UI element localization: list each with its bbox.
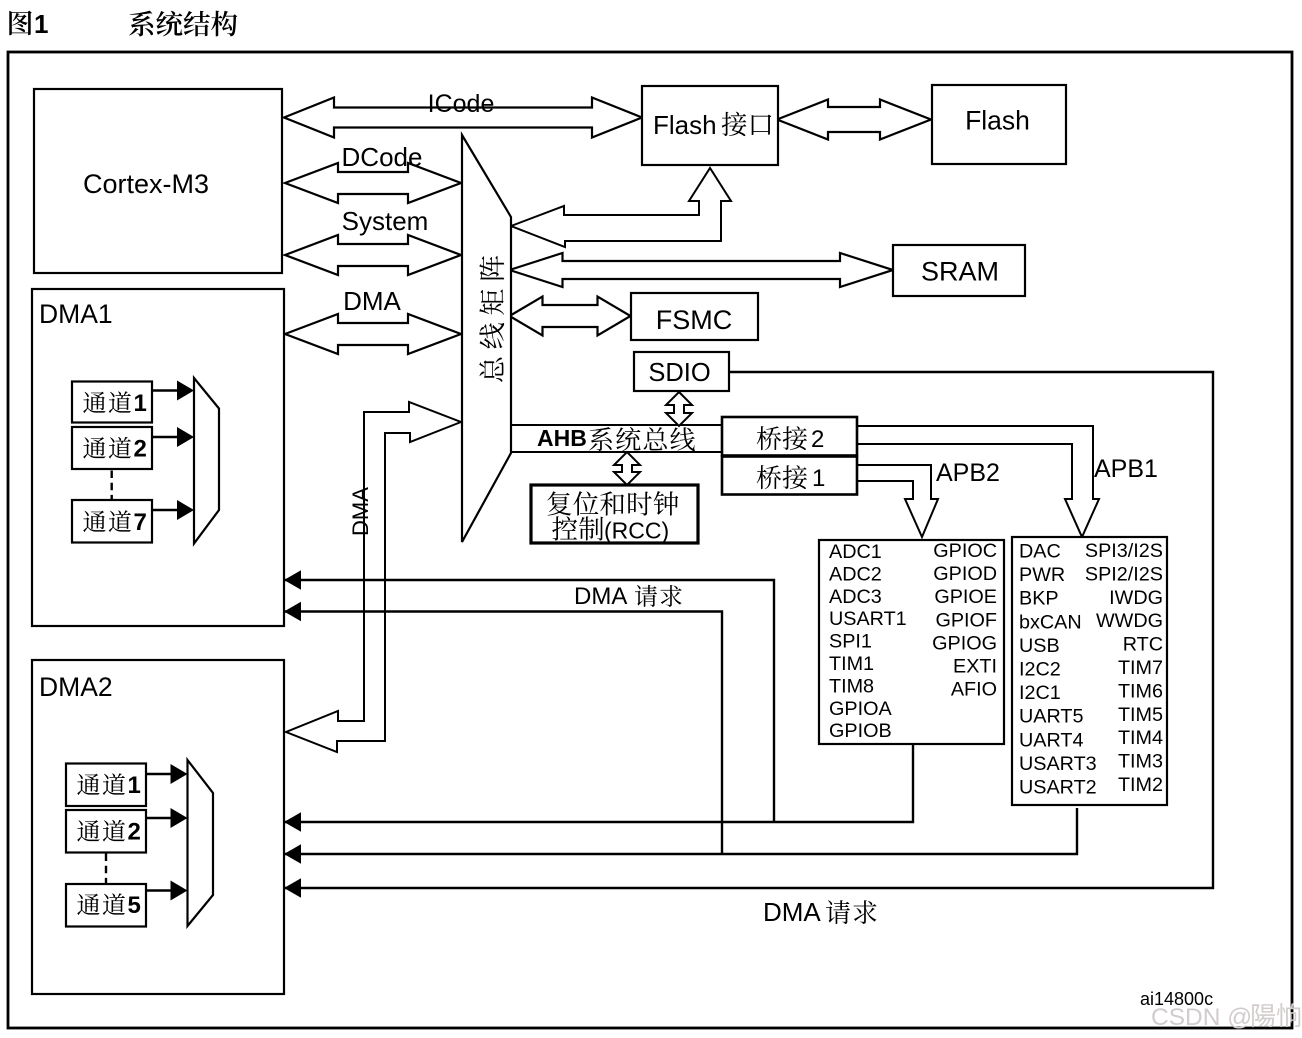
- svg-text:TIM4: TIM4: [1118, 727, 1163, 749]
- box DMA1 channel 通道2: [72, 427, 152, 469]
- svg-text:I2C1: I2C1: [1019, 682, 1061, 704]
- arrow System bus (Cortex to bus matrix): [285, 235, 461, 275]
- label APB1: [1094, 455, 1158, 483]
- label AHB系统总线: [537, 425, 695, 451]
- watermark CSDN: [1151, 1003, 1300, 1031]
- dashed link DMA2 channels: [105, 854, 107, 884]
- bent arrow bus matrix to DMA2: [286, 402, 461, 752]
- box peripherals APB2 group: [819, 540, 1004, 744]
- svg-text:DCode: DCode: [342, 142, 423, 172]
- wire DMA request net2 (periph box2 to DMA1/DMA2): [284, 602, 1077, 864]
- svg-text:DMA: DMA: [348, 487, 373, 536]
- arrow SDIO to AHB: [666, 392, 692, 426]
- box Cortex-M3: [34, 89, 282, 273]
- box DMA2 channel 通道5: [66, 884, 146, 927]
- svg-text:APB2: APB2: [936, 459, 1000, 487]
- svg-text:TIM6: TIM6: [1118, 680, 1163, 702]
- label DMA (DMA1 bus): [343, 286, 401, 316]
- svg-text:2: 2: [128, 819, 141, 846]
- svg-text:2: 2: [811, 426, 824, 453]
- box bridge 桥接2: [722, 417, 857, 456]
- svg-text:2: 2: [134, 436, 147, 463]
- box DMA2 channel 通道1: [66, 764, 146, 807]
- svg-text:ICode: ICode: [428, 90, 495, 118]
- svg-text:SPI1: SPI1: [829, 631, 872, 653]
- title text 系统结构: [129, 11, 237, 37]
- svg-text:DMA: DMA: [343, 286, 401, 316]
- svg-text:1: 1: [134, 390, 147, 417]
- svg-text:UART5: UART5: [1019, 706, 1084, 728]
- mux trapezoid DMA1: [194, 378, 219, 544]
- svg-text:ADC1: ADC1: [829, 541, 882, 563]
- svg-text:1: 1: [128, 772, 141, 799]
- arrow APB1 (bridge2 to periph box2): [857, 426, 1099, 537]
- svg-text:TIM8: TIM8: [829, 675, 874, 697]
- svg-text:SDIO: SDIO: [648, 359, 710, 387]
- wire AHB system bus upper: [511, 424, 722, 426]
- svg-text:ADC3: ADC3: [829, 586, 882, 608]
- svg-text:Flash: Flash: [653, 110, 717, 140]
- box Flash interface Flash接口: [642, 86, 778, 165]
- svg-text:USART3: USART3: [1019, 753, 1097, 775]
- box bridge 桥接1: [722, 457, 857, 495]
- svg-text:DMA1: DMA1: [39, 299, 113, 329]
- wire DMA request net3 (SDIO to DMA2): [284, 372, 1213, 898]
- svg-text:USB: USB: [1019, 635, 1060, 657]
- svg-text:GPIOD: GPIOD: [933, 563, 997, 585]
- label APB2: [936, 459, 1000, 487]
- label DCode: [342, 142, 423, 172]
- box SRAM: [893, 245, 1025, 296]
- arrow Flash interface to Flash: [777, 100, 931, 140]
- svg-text:RTC: RTC: [1123, 634, 1163, 656]
- bent arrow bus matrix to Flash interface: [511, 168, 731, 247]
- svg-text:TIM2: TIM2: [1118, 774, 1163, 796]
- svg-text:TIM1: TIM1: [829, 653, 874, 675]
- svg-text:USART1: USART1: [829, 608, 907, 630]
- label ICode: [428, 90, 495, 118]
- svg-text:GPIOG: GPIOG: [932, 632, 997, 654]
- wire DMA1 ch7 to mux: [152, 500, 194, 520]
- wire DMA1 ch1 to mux: [152, 381, 194, 401]
- svg-text:AHB: AHB: [537, 425, 587, 451]
- svg-text:GPIOE: GPIOE: [934, 586, 997, 608]
- svg-text:AFIO: AFIO: [951, 679, 997, 701]
- box FSMC: [631, 293, 758, 340]
- wire AHB system bus lower: [511, 451, 722, 453]
- svg-text:5: 5: [128, 892, 141, 919]
- label ai14800c: [1140, 989, 1213, 1009]
- arrow bus matrix to SRAM: [510, 253, 894, 287]
- arrow AHB to RCC: [614, 452, 640, 485]
- box RCC 复位和时钟控制: [531, 485, 698, 544]
- label DMA 请求 upper: [574, 583, 682, 610]
- svg-text:1: 1: [812, 465, 825, 492]
- svg-text:DAC: DAC: [1019, 541, 1061, 563]
- svg-text:CSDN @: CSDN @: [1151, 1004, 1252, 1031]
- wire DMA2 ch5 to mux: [146, 881, 188, 901]
- arrow DCode bus (Cortex to bus matrix): [285, 163, 461, 203]
- svg-text:GPIOC: GPIOC: [933, 540, 997, 562]
- svg-text:SPI3/I2S: SPI3/I2S: [1085, 540, 1163, 562]
- box peripherals APB1 group: [1012, 537, 1167, 805]
- dashed link DMA1 channels: [110, 471, 112, 500]
- svg-text:I2C2: I2C2: [1019, 659, 1061, 681]
- wire DMA2 ch2 to mux: [146, 808, 188, 828]
- arrow ICode bus (Cortex to Flash interface): [284, 98, 642, 138]
- svg-text:PWR: PWR: [1019, 564, 1065, 586]
- svg-text:IWDG: IWDG: [1109, 587, 1163, 609]
- svg-text:7: 7: [134, 509, 147, 536]
- box Flash: [932, 85, 1066, 164]
- svg-text:EXTI: EXTI: [953, 656, 997, 678]
- bus matrix polygon 总线矩阵: [462, 135, 511, 542]
- svg-text:TIM3: TIM3: [1118, 751, 1163, 773]
- box DMA2: [32, 660, 284, 994]
- svg-text:SRAM: SRAM: [921, 257, 999, 287]
- svg-text:DMA: DMA: [574, 583, 627, 610]
- title figure label 图1: [9, 9, 48, 39]
- svg-text:TIM7: TIM7: [1118, 657, 1163, 679]
- arrow APB2 (bridge1 to periph box1): [857, 465, 938, 537]
- svg-text:BKP: BKP: [1019, 588, 1059, 610]
- label System: [342, 206, 429, 236]
- wire DMA1 ch2 to mux: [152, 427, 194, 447]
- box DMA1: [32, 289, 284, 626]
- svg-text:1: 1: [34, 9, 48, 39]
- bus matrix vertical label 总线矩阵: [479, 256, 504, 382]
- arrow bus matrix to FSMC: [510, 297, 631, 336]
- arrow DMA bus (DMA1 to bus matrix): [285, 314, 461, 354]
- svg-text:WWDG: WWDG: [1096, 610, 1163, 632]
- svg-text:GPIOA: GPIOA: [829, 698, 892, 720]
- svg-text:GPIOF: GPIOF: [935, 609, 997, 631]
- wire DMA2 ch1 to mux: [146, 764, 188, 784]
- label DMA vertical (bus matrix to DMA2): [348, 487, 373, 536]
- svg-text:ADC2: ADC2: [829, 563, 882, 585]
- svg-text:DMA: DMA: [763, 897, 821, 927]
- svg-text:Cortex-M3: Cortex-M3: [83, 169, 209, 199]
- box DMA2 channel 通道2: [66, 810, 146, 853]
- svg-text:DMA2: DMA2: [39, 672, 113, 702]
- label DMA 请求 lower: [763, 897, 877, 927]
- svg-text:System: System: [342, 206, 429, 236]
- svg-text:bxCAN: bxCAN: [1019, 611, 1082, 633]
- svg-text:UART4: UART4: [1019, 729, 1084, 751]
- wire DMA request net1 (periph box1 to DMA1/DMA2): [284, 570, 913, 831]
- box SDIO: [634, 352, 729, 391]
- svg-text:APB1: APB1: [1094, 455, 1158, 483]
- svg-text:FSMC: FSMC: [656, 305, 733, 335]
- svg-text:TIM5: TIM5: [1118, 704, 1163, 726]
- svg-text:GPIOB: GPIOB: [829, 720, 892, 742]
- box DMA1 channel 通道7: [72, 500, 152, 543]
- mux trapezoid DMA2: [188, 760, 214, 926]
- svg-text:SPI2/I2S: SPI2/I2S: [1085, 563, 1163, 585]
- svg-text:USART2: USART2: [1019, 777, 1097, 799]
- box DMA1 channel 通道1: [72, 382, 152, 423]
- svg-text:(RCC): (RCC): [604, 518, 669, 544]
- svg-text:Flash: Flash: [965, 106, 1030, 136]
